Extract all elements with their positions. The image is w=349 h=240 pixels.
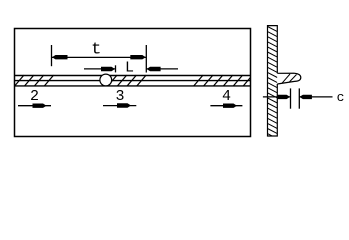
hatching zone 4 (right section) [194,75,253,86]
dimension L: left extension tick [115,65,117,72]
dimension t: right arrowhead [130,55,146,59]
zone 4 arrow [210,105,242,107]
sheet bottom surface line [14,85,251,87]
flanged sheet edge (second sheet section) [277,73,301,84]
zone 3 arrow [103,105,136,107]
svg-text:4: 4 [222,88,231,105]
hatching zone 2 (left section) [15,75,54,86]
weld nugget circle [100,74,112,86]
sheet interface (middle) line [14,80,251,82]
bar outline [268,26,278,136]
dimension L: left leader with arrow pointing right [84,68,116,70]
side-view sheet bar (hatched) [268,27,278,139]
dimension c: right leader with arrow [299,96,332,98]
svg-text:c: c [337,90,345,105]
svg-text:2: 2 [30,88,39,105]
dimension t: left extension line [51,45,53,66]
flange hatch lines [282,74,290,83]
zone 2 arrow [18,105,51,107]
svg-text:L: L [125,60,134,77]
svg-text:t: t [91,41,101,60]
dimension c: left leader with arrow [263,96,291,98]
dimension c: left extension line [290,88,292,108]
dimension t: left arrowhead [52,55,68,59]
dimension c: right extension line [298,88,300,108]
dimension t: right extension line (shared with L) [145,45,147,73]
dimension L: right leader with arrow pointing left [146,68,178,70]
hatching zone 3 (middle section) [108,75,146,86]
sheet top surface line [14,75,251,77]
svg-text:3: 3 [115,88,124,105]
border frame of left view [15,29,251,137]
dimension t: dimension line [52,56,147,58]
